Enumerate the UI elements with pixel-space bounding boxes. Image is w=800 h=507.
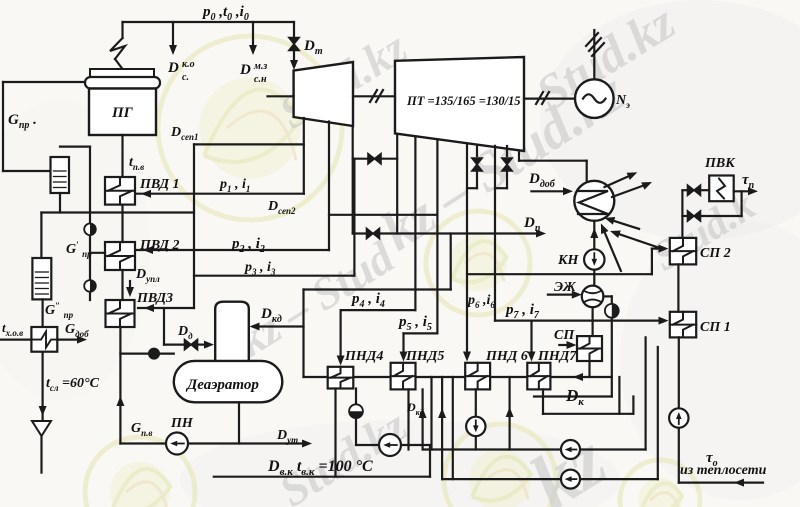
svg-text:м.з: м.з <box>253 61 267 72</box>
svg-text:ПНД4: ПНД4 <box>344 349 383 364</box>
svg-text:ПТ =135/165 =130/15: ПТ =135/165 =130/15 <box>406 94 521 108</box>
svg-text:Деаэратор: Деаэратор <box>185 377 259 393</box>
svg-text:p1 , i1: p1 , i1 <box>219 177 250 194</box>
svg-text:ПН: ПН <box>170 416 194 431</box>
svg-text:ПВД3: ПВД3 <box>136 291 173 306</box>
svg-text:ПВК: ПВК <box>704 156 736 171</box>
svg-text:ПГ: ПГ <box>111 105 134 121</box>
svg-text:из теплосети: из теплосети <box>680 463 767 478</box>
svg-text:СП 1: СП 1 <box>700 320 731 335</box>
svg-text:ПВД 1: ПВД 1 <box>139 177 180 192</box>
svg-text:ПНД7: ПНД7 <box>537 349 577 364</box>
svg-text:D: D <box>239 62 251 78</box>
svg-text:D: D <box>167 60 179 76</box>
svg-text:ПВД 2: ПВД 2 <box>139 238 180 253</box>
svg-text:КН: КН <box>557 253 579 268</box>
svg-text:ПНД 6: ПНД 6 <box>485 349 528 364</box>
svg-text:СП: СП <box>554 328 575 343</box>
svg-text:ЭЖ: ЭЖ <box>554 280 577 295</box>
svg-text:ПНД5: ПНД5 <box>405 349 444 364</box>
svg-text:СП 2: СП 2 <box>700 246 731 261</box>
svg-text:с.н: с.н <box>254 74 267 85</box>
svg-text:к.о: к.о <box>182 59 195 70</box>
svg-text:с.: с. <box>182 72 189 83</box>
